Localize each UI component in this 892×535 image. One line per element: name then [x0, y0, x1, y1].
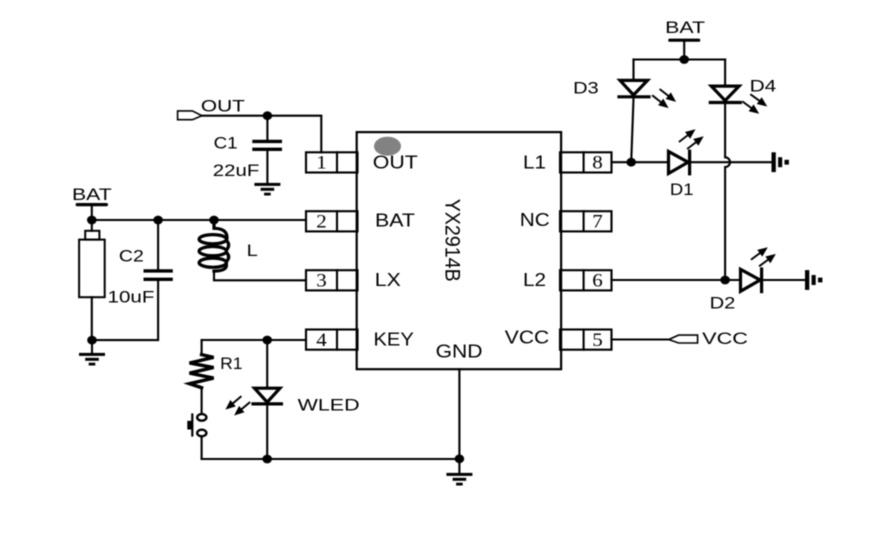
svg-text:VCC: VCC: [505, 327, 549, 347]
WLED light arrows: [223, 394, 244, 413]
svg-text:8: 8: [592, 154, 603, 174]
svg-text:GND: GND: [436, 341, 483, 361]
pin 8 box: [560, 152, 612, 172]
wire junction to C1: [266, 116, 268, 140]
wire C1 to ground: [266, 151, 268, 184]
svg-text:R1: R1: [220, 354, 242, 373]
wire BAT to battery nub: [91, 220, 93, 231]
svg-text:22uF: 22uF: [213, 161, 259, 180]
wire OUT connector to pin1 corner: [202, 116, 321, 153]
svg-text:L1: L1: [523, 152, 546, 172]
D4 light arrows: [749, 91, 770, 110]
svg-text:D4: D4: [750, 77, 777, 96]
D3 light arrows: [658, 86, 679, 105]
svg-text:3: 3: [316, 272, 327, 292]
svg-text:5: 5: [592, 331, 603, 351]
node L junction top: [209, 216, 219, 225]
svg-text:NC: NC: [520, 210, 550, 230]
pin 4 box: [306, 330, 358, 350]
svg-text:C1: C1: [214, 133, 238, 152]
node OUT/C1 junction: [263, 111, 273, 120]
svg-text:LX: LX: [375, 270, 401, 290]
svg-text:4: 4: [316, 331, 327, 351]
node KEY/WLED junction: [262, 336, 272, 345]
wire pin 8 to D1: [612, 161, 669, 163]
wire battery to ground node: [91, 297, 93, 340]
wire C2 return: [92, 281, 158, 340]
LED D3: [619, 80, 649, 96]
wire BAT stub: [91, 205, 93, 220]
wire L bottom to pin 3: [214, 271, 306, 280]
svg-text:YX2914B: YX2914B: [441, 199, 464, 282]
svg-text:D2: D2: [710, 294, 736, 313]
node ground junction: [87, 336, 97, 345]
resistor R1: [190, 355, 214, 388]
ground right of D2: [805, 270, 822, 290]
BAT terminal bar (left): [77, 203, 106, 206]
node pin6/D4 junction: [720, 276, 730, 285]
svg-text:L2: L2: [523, 270, 546, 290]
svg-text:6: 6: [592, 272, 603, 292]
wire C2 top: [157, 220, 159, 269]
switch S1 top contact: [197, 414, 206, 421]
svg-text:BAT: BAT: [665, 18, 705, 37]
wire BAT rail to pin 2: [92, 219, 306, 221]
wire D1 to ground: [691, 161, 771, 163]
svg-text:C2: C2: [119, 247, 144, 266]
wire BAT stub top: [683, 40, 685, 59]
LED D2: [741, 269, 762, 292]
wire pin 5 to VCC connector: [612, 338, 669, 340]
svg-text:BAT: BAT: [375, 210, 415, 230]
capacitor C2: [145, 269, 171, 272]
node pin8/D3 junction: [626, 158, 636, 167]
pin 6 box: [560, 270, 612, 290]
switch S1 actuator bar: [191, 415, 193, 436]
pin 3 box: [306, 270, 358, 290]
capacitor C1: [254, 140, 280, 143]
node GND junction: [455, 454, 465, 463]
svg-text:7: 7: [592, 213, 603, 233]
switch S1 bottom contact: [197, 430, 206, 437]
wire R1 to switch: [201, 388, 203, 414]
LED D1: [669, 151, 690, 174]
wire KEY rail: [202, 339, 306, 341]
svg-text:KEY: KEY: [374, 329, 414, 349]
svg-text:WLED: WLED: [298, 396, 360, 415]
pin 7 box: [560, 211, 612, 231]
connector VCC: [669, 335, 698, 343]
D2 light arrows: [749, 244, 770, 263]
wire top rail to D4: [724, 60, 726, 87]
wire pin 6 to D2: [612, 279, 741, 281]
wire WLED anode: [266, 340, 268, 388]
wire top rail D3-D4: [634, 58, 726, 60]
wire GND stub: [458, 459, 460, 474]
inductor L: [199, 220, 229, 271]
wire switch to bottom rail: [201, 436, 203, 459]
ground below battery: [79, 353, 105, 366]
ground below C1: [254, 183, 280, 196]
node BAT junction: [87, 216, 97, 225]
node C2 junction top: [153, 216, 163, 225]
wire D4 cathode with hop over pin8 wire: [725, 104, 730, 280]
svg-text:L: L: [247, 241, 258, 260]
pin 1 box: [306, 152, 358, 172]
ground right of D1: [772, 152, 789, 172]
svg-text:10uF: 10uF: [108, 288, 155, 307]
svg-text:OUT: OUT: [373, 152, 418, 172]
battery cell nub: [85, 231, 99, 240]
wire IC GND to ground: [458, 369, 460, 459]
connector OUT (top-left): [178, 111, 202, 120]
pin 2 box: [306, 211, 358, 231]
svg-text:D3: D3: [573, 79, 599, 98]
wire corner to R1: [201, 340, 203, 355]
node top BAT junction: [679, 55, 689, 64]
svg-text:2: 2: [316, 213, 327, 233]
svg-text:BAT: BAT: [72, 185, 112, 204]
wire ground stub: [91, 340, 93, 353]
wire bottom rail: [202, 458, 460, 460]
node WLED bottom junction: [262, 455, 272, 464]
wire D3 cathode to node: [631, 98, 633, 162]
ground below IC: [446, 473, 472, 486]
pin 5 box: [560, 330, 612, 350]
IC pin-1 marker dot: [374, 137, 401, 156]
battery cell body: [79, 240, 105, 298]
wire top rail to D3: [632, 60, 634, 81]
LED D4: [710, 86, 740, 102]
LED WLED: [253, 388, 281, 404]
BAT terminal bar (top): [670, 39, 699, 42]
D1 light arrows: [677, 126, 698, 145]
svg-text:D1: D1: [670, 180, 694, 199]
IC U1 YX2914B body: [357, 132, 561, 369]
wire D2 to ground: [763, 279, 805, 281]
svg-text:1: 1: [316, 154, 327, 174]
wire WLED cathode: [266, 406, 268, 460]
switch S1 button: [187, 421, 191, 430]
svg-text:OUT: OUT: [201, 97, 245, 116]
svg-text:VCC: VCC: [702, 329, 748, 348]
